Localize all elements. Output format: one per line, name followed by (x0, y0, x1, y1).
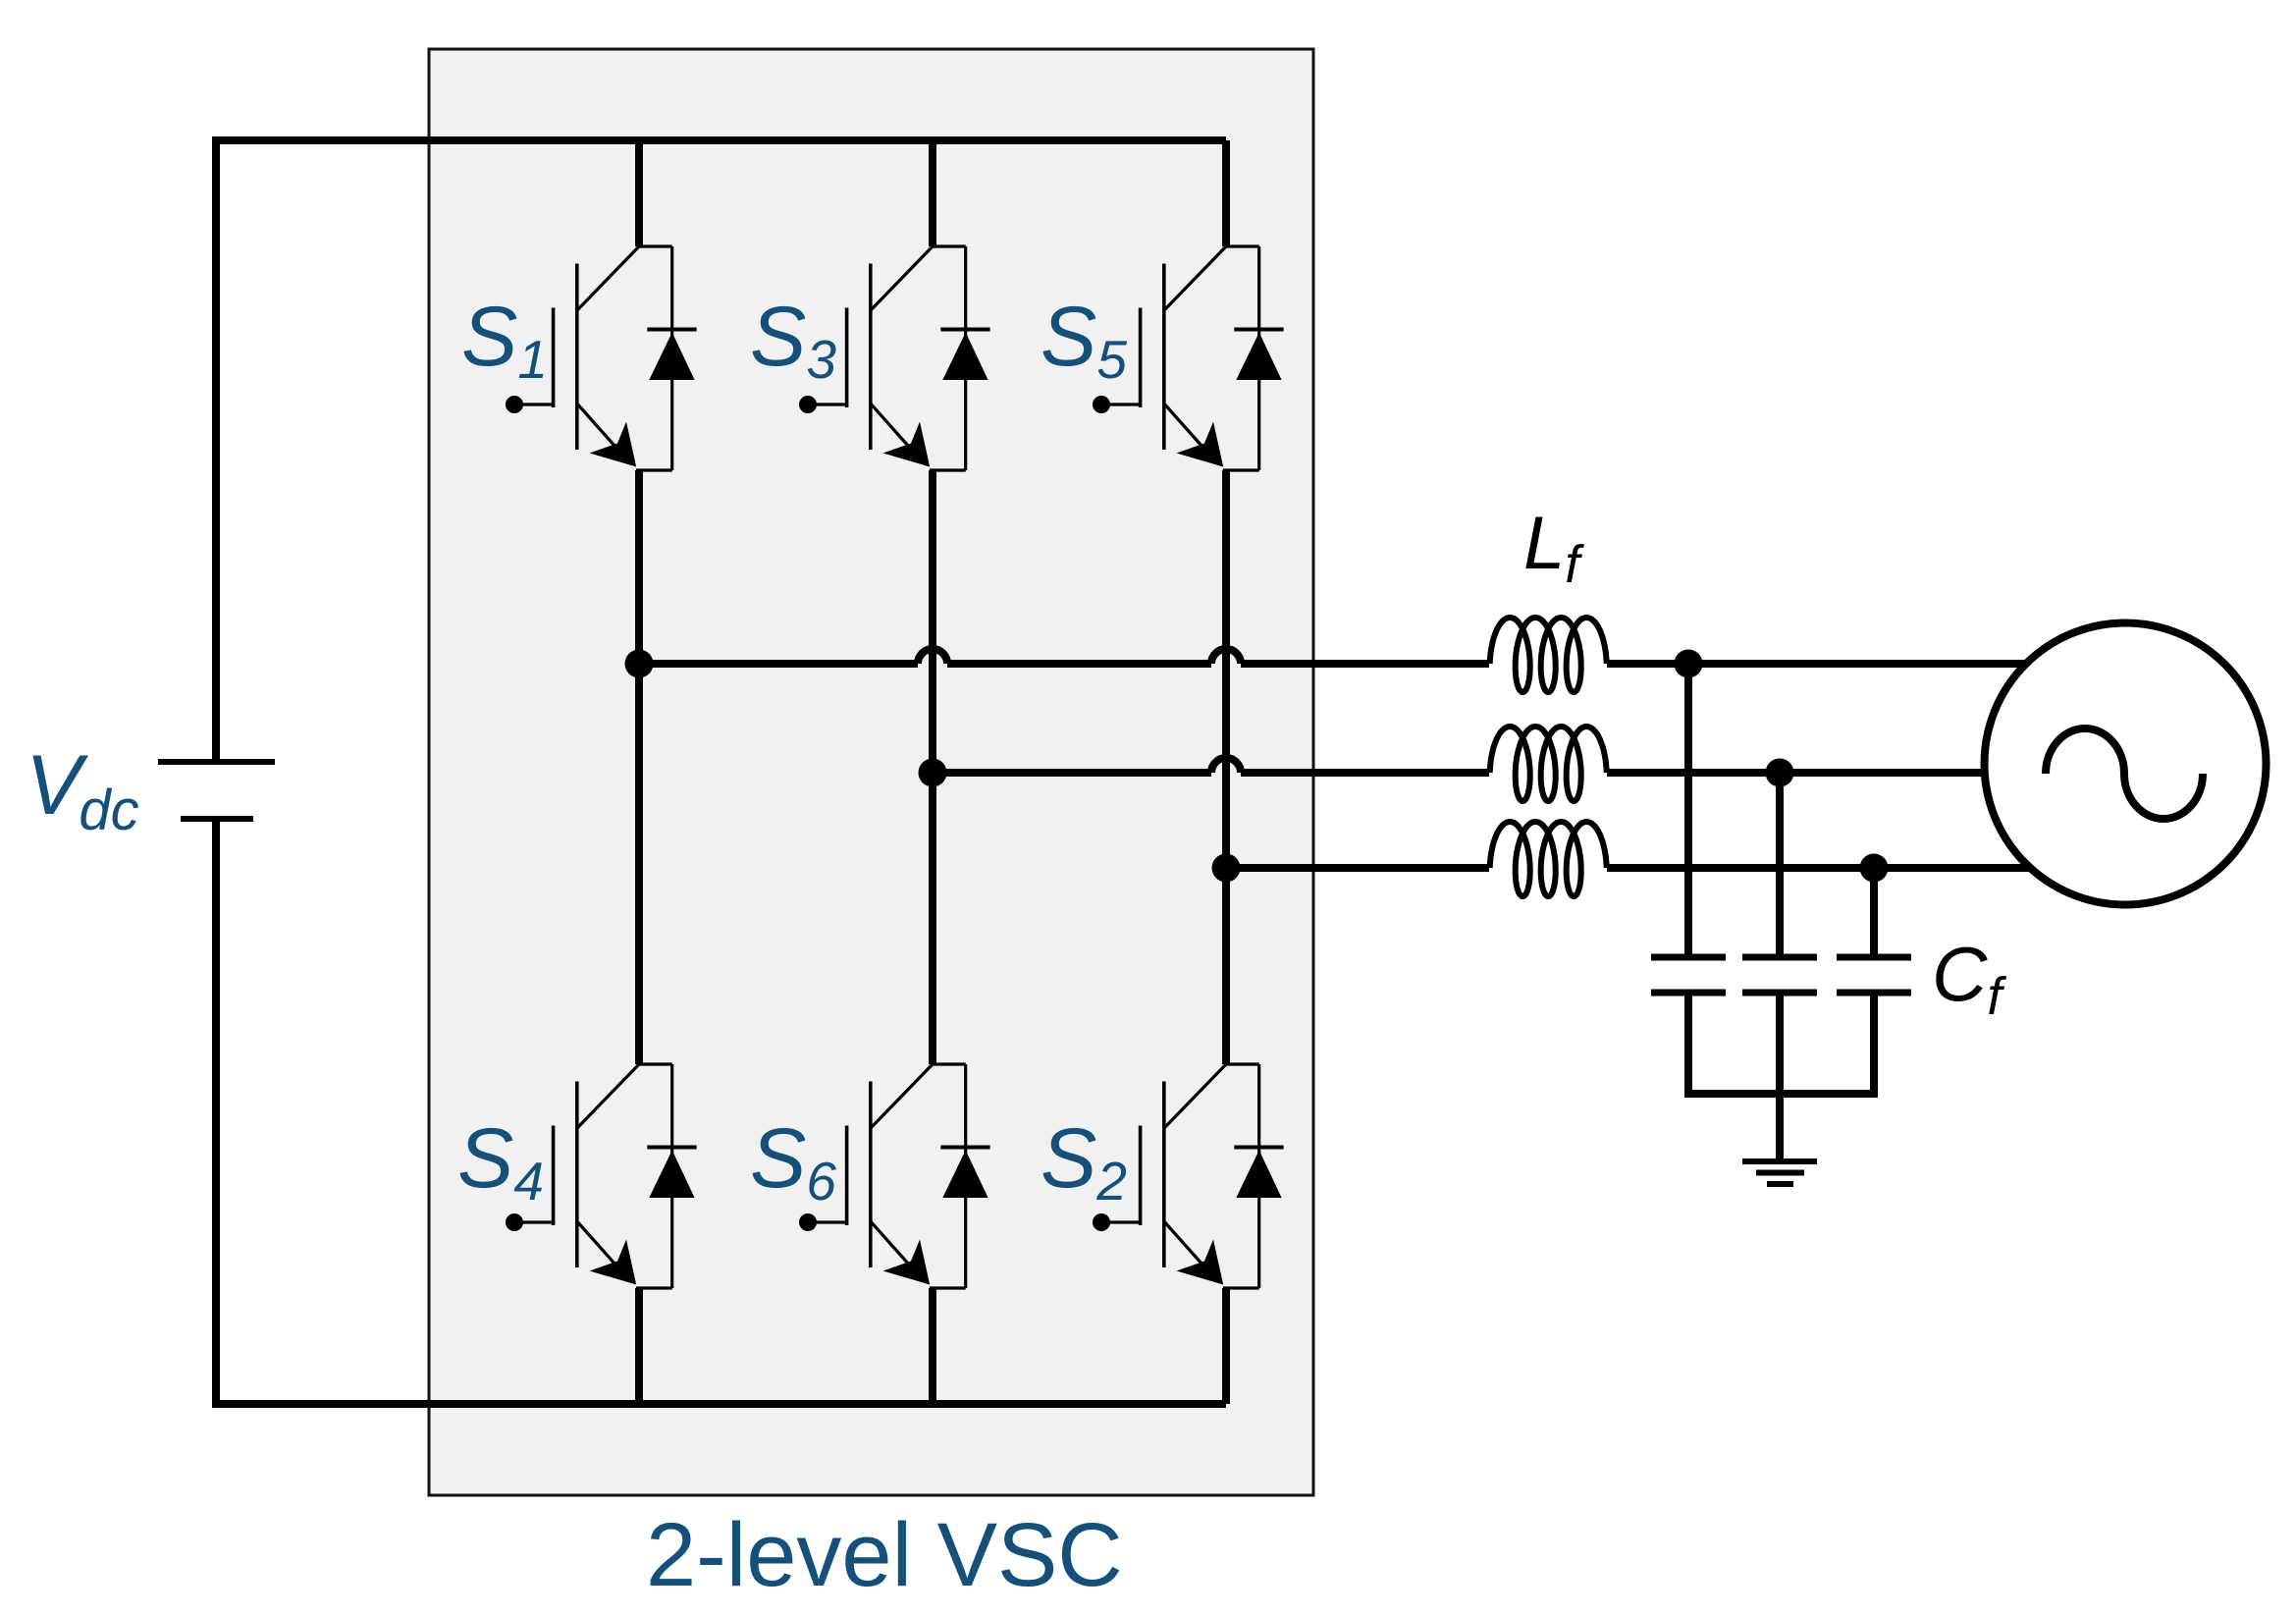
svg-text:2-level VSC: 2-level VSC (646, 1505, 1123, 1605)
